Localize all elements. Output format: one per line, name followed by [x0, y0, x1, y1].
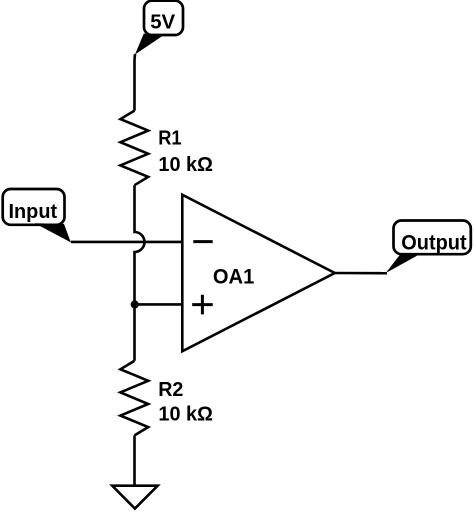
node A junction dot — [131, 300, 139, 308]
svg-text:OA1: OA1 — [213, 265, 255, 289]
ground — [112, 486, 158, 509]
net flag 5V — [135, 1, 183, 55]
wire R2 to ground — [133, 435, 136, 485]
wire R1 to R2 through node A with hop over input wire — [135, 185, 145, 361]
wire 5V to R1 — [133, 54, 136, 111]
svg-text:10 kΩ: 10 kΩ — [158, 404, 213, 426]
net flag Output — [386, 221, 471, 274]
svg-text:Output: Output — [401, 231, 466, 254]
resistor R1 — [120, 111, 148, 186]
resistor R2 — [120, 361, 148, 436]
OA1 non-inverting pin plus sign — [192, 295, 213, 315]
svg-text:R2: R2 — [158, 379, 183, 401]
wire node A to op-amp non-inverting input — [135, 303, 183, 306]
svg-text:10 kΩ: 10 kΩ — [158, 154, 213, 176]
OA1 inverting pin minus sign — [193, 240, 212, 243]
wire OA1 output to Output flag — [335, 272, 387, 275]
svg-text:R1: R1 — [158, 128, 181, 150]
wire Input to op-amp inverting input — [71, 241, 183, 244]
svg-text:Input: Input — [9, 200, 58, 223]
net flag Input — [3, 189, 71, 242]
svg-text:5V: 5V — [150, 10, 175, 33]
op-amp OA1 — [182, 195, 334, 352]
